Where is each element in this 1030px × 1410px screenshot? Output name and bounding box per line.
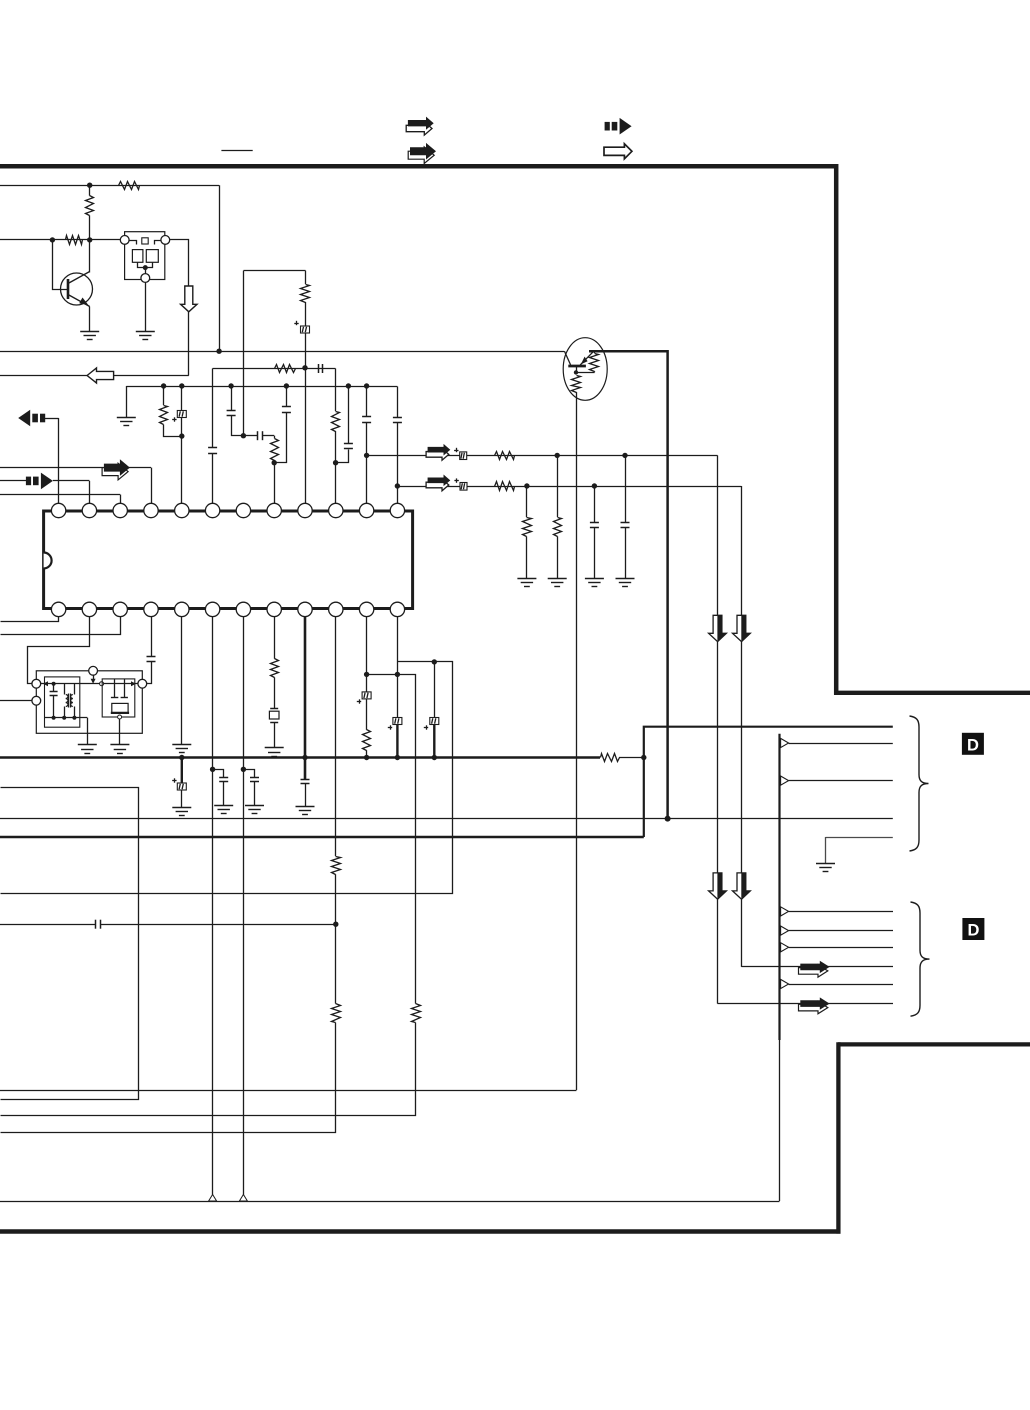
wire X2 gnd <box>119 719 121 745</box>
arrow flow down <box>181 286 197 312</box>
wire pin10 drop <box>335 463 337 504</box>
wire pin1 feed <box>44 418 59 503</box>
resistor R17 <box>601 754 620 762</box>
pin conn1-2 <box>781 738 893 747</box>
node junction <box>210 767 215 772</box>
transformer block T1 box <box>36 671 142 734</box>
wire connector bar lower <box>779 1040 781 1201</box>
wire row2 <box>397 486 741 488</box>
resistor R8 <box>332 369 340 463</box>
capacitor C19 electrolytic <box>357 674 371 703</box>
node junction <box>555 453 560 458</box>
wire connector feed <box>644 727 893 837</box>
ic U1 pin top 1 <box>51 503 65 517</box>
wire pin3 feed <box>0 495 121 504</box>
capacitor C1 electrolytic <box>294 321 309 368</box>
resistor R7 <box>271 436 279 463</box>
capacitor C16 <box>213 770 229 806</box>
wire pin7 top link <box>244 270 306 272</box>
capacitor C6 <box>243 431 274 440</box>
capacitor C8 <box>336 386 353 463</box>
node junction <box>179 433 184 438</box>
brace conn1 <box>910 716 929 851</box>
node junction <box>346 383 351 388</box>
ground X1 <box>136 332 155 340</box>
wire pin6 drop <box>212 454 214 504</box>
ic U1 pin top 2 <box>82 503 96 517</box>
capacitor C14 <box>621 455 630 578</box>
wire pin3b <box>1 617 121 635</box>
node junction <box>241 433 246 438</box>
wire pin5 drop <box>181 436 183 503</box>
crystal X3 <box>269 709 279 748</box>
wire pin9 column <box>305 368 307 503</box>
capacitor C3 <box>208 448 217 454</box>
arrow bus left <box>18 410 45 427</box>
capacitor C13 <box>590 486 599 578</box>
wire conn1 gnd drop <box>825 837 827 863</box>
node junction <box>272 460 277 465</box>
arrow bus right <box>26 473 53 490</box>
wire pin10b mid <box>335 874 337 1003</box>
ic U1 pin top 4 <box>144 503 158 517</box>
ic U1 pin bottom 2 <box>82 602 96 616</box>
resistor R5 <box>275 365 296 373</box>
capacitor C4 electrolytic <box>172 386 186 436</box>
transistor Q1 <box>53 240 93 332</box>
wire border lower-right horizontal <box>838 1042 1030 1046</box>
terminal X1 right <box>161 236 170 245</box>
resistor R2 <box>86 185 94 240</box>
wire X1 to ground <box>145 282 147 331</box>
transistor Q2 <box>563 338 607 401</box>
capacitor C20 electrolytic <box>388 718 402 758</box>
node junction <box>432 755 437 760</box>
capacitor C9 <box>362 386 371 455</box>
ic U1 pin top 8 <box>267 503 281 517</box>
node junction <box>364 453 369 458</box>
ic U1 body <box>44 511 413 609</box>
wire rail B <box>126 386 397 388</box>
terminal X1 bottom <box>141 274 150 283</box>
pin conn1-3 <box>781 776 893 785</box>
resistor R1 <box>119 182 140 190</box>
wire mid A <box>0 818 893 820</box>
wire pin10b lower <box>1 1023 336 1133</box>
resistor R18 <box>412 1004 421 1023</box>
wire Q2 emitter rail <box>589 350 668 353</box>
node junction <box>87 237 92 242</box>
label D2 <box>962 918 984 940</box>
wire border lower-right vertical <box>836 1042 840 1233</box>
resistor R16 <box>363 699 371 758</box>
brace conn2 <box>911 902 930 1016</box>
ic U1 pin bottom 5 <box>175 602 189 616</box>
wire pin11 drop <box>366 455 368 503</box>
capacitor C12 electrolytic <box>454 478 467 490</box>
capacitor T1 internal <box>50 684 58 718</box>
wire pin6b <box>212 617 214 1195</box>
legend dash <box>221 150 252 152</box>
wire T1 gnd1 <box>87 718 89 745</box>
wire rail A <box>213 368 336 370</box>
ic U1 pin top 12 <box>390 503 404 517</box>
wire supply rail <box>0 185 219 187</box>
ic U1 pin top 3 <box>113 503 127 517</box>
wire pin11b <box>366 617 368 675</box>
node junction <box>179 755 184 760</box>
ic U1 pin bottom 11 <box>359 602 373 616</box>
ic U1 pin bottom 10 <box>329 602 343 616</box>
capacitor C18 <box>301 758 310 807</box>
node junction <box>216 349 221 354</box>
wire link 674 lower <box>1 1023 416 1116</box>
node junction <box>364 755 369 760</box>
arrow conn2 line6 <box>799 997 830 1013</box>
resistor R12 <box>554 455 562 578</box>
wire border bottom <box>0 1229 841 1234</box>
svg-text:D: D <box>967 736 979 754</box>
capacitor C7 <box>275 386 291 463</box>
wire bottom A <box>0 1090 576 1092</box>
wire pin2 feed <box>0 481 90 504</box>
node junction <box>641 755 646 760</box>
arrow row2 out <box>426 475 450 491</box>
legend arrow hollow <box>604 144 632 159</box>
wire base rail <box>0 239 125 241</box>
wire conn2 line6 <box>718 1003 894 1005</box>
capacitor C23 <box>0 920 336 929</box>
wire pin7 riser <box>243 271 245 436</box>
resistor R3 <box>66 236 83 245</box>
node junction <box>395 672 400 677</box>
wire pin9b <box>304 617 307 758</box>
ground pin5 <box>172 745 191 753</box>
node junction <box>179 383 184 388</box>
node junction <box>395 755 400 760</box>
node junction <box>302 755 307 760</box>
ic U1 pin top 11 <box>359 503 373 517</box>
ground C14 <box>616 579 635 587</box>
connector bar <box>778 734 780 1040</box>
ic U1 pin bottom 1 <box>51 602 65 616</box>
wire pin1b <box>1 617 59 622</box>
inductor T1 coils <box>65 684 75 718</box>
arrow flow left <box>87 368 114 383</box>
node junction <box>432 659 437 664</box>
ground conn1 <box>816 864 835 872</box>
arrow solid out <box>102 459 130 480</box>
resistor R10 <box>495 482 515 491</box>
wire row1 drop <box>717 455 719 1003</box>
wire Q2 collector drop <box>576 393 578 1090</box>
capacitor C17 <box>244 770 260 806</box>
capacitor C21 electrolytic <box>424 662 439 758</box>
wire conn2 line4 <box>741 966 893 968</box>
legend arrow bus <box>605 118 632 135</box>
ic U1 pin bottom 8 <box>267 602 281 616</box>
wire pin12 drop <box>397 486 399 503</box>
ground C17 <box>245 806 264 814</box>
wire pin8 drop <box>274 463 276 504</box>
ground X3 <box>265 748 284 757</box>
node junction <box>50 237 55 242</box>
node junction <box>364 672 369 677</box>
resistor R6 <box>160 386 182 437</box>
node junction <box>228 383 233 388</box>
wire link 674 <box>367 675 416 1004</box>
resistor R15 <box>332 1004 341 1023</box>
wire AFC out <box>0 375 189 377</box>
terminal T1 top <box>89 666 98 675</box>
arrow flow down2 <box>733 615 751 641</box>
node junction <box>284 383 289 388</box>
arrow flow down1 <box>709 615 727 641</box>
wire bus tail <box>619 757 644 759</box>
ground R12 <box>548 579 567 587</box>
wire mid B thick <box>0 836 644 838</box>
discriminator X2 box <box>102 679 135 719</box>
wire row1 <box>367 455 718 457</box>
pin conn2-5 <box>781 979 893 988</box>
terminal T1 left lower <box>32 696 41 705</box>
wire pin10b upper <box>335 617 337 856</box>
terminal pin7 bottom <box>239 1195 247 1202</box>
wire T1 internal rail <box>41 675 138 686</box>
node junction <box>161 383 166 388</box>
crystal X1 <box>125 232 165 280</box>
wire shield box <box>1 788 139 1100</box>
node junction <box>87 183 92 188</box>
wire ground bus <box>0 756 600 758</box>
ic U1 pin top 5 <box>175 503 189 517</box>
ic U1 pin bottom 6 <box>205 602 219 616</box>
ground C18 <box>296 807 315 815</box>
ic U1 pin bottom 12 <box>390 602 404 616</box>
wire pin4b lower <box>147 662 152 684</box>
wire rail Vcc <box>0 351 564 353</box>
wire pin5b <box>181 617 183 745</box>
wire conn1 gnd line <box>826 837 893 839</box>
ground X2 <box>110 745 129 754</box>
wire rail-B ground leg <box>126 386 128 417</box>
wire pin4b <box>151 617 153 657</box>
legend arrow solid <box>408 143 436 164</box>
resistor R4 <box>301 271 310 326</box>
ground C16 <box>214 806 233 814</box>
wire pin12b <box>397 617 399 718</box>
ground Q1 emitter <box>80 332 99 340</box>
ic U1 pin top 7 <box>236 503 250 517</box>
arrow conn2 line4 <box>799 961 830 977</box>
arrow row1 out <box>426 444 450 460</box>
resistor R11 <box>523 486 532 578</box>
arrow flow down3 <box>709 873 727 899</box>
resistor R13 <box>271 617 279 709</box>
ic U1 pin bottom 4 <box>144 602 158 616</box>
ground C22 <box>172 808 191 816</box>
capacitor C10 <box>393 387 402 487</box>
node junction <box>302 365 307 370</box>
ic U1 pin bottom 3 <box>113 602 127 616</box>
wire X1 right lead <box>170 240 189 376</box>
ground T1 a <box>78 745 97 754</box>
arrow flow down4 <box>733 873 751 899</box>
resistor R9 <box>495 452 515 460</box>
node junction <box>622 453 627 458</box>
legend arrow signal-route <box>406 117 434 136</box>
label D1 <box>962 733 984 755</box>
wire border right upper <box>834 164 839 695</box>
node junction <box>665 816 671 822</box>
wire pin6 column <box>212 369 214 448</box>
capacitor C2 <box>319 364 323 373</box>
wire pin2b <box>28 617 90 684</box>
resistor R14 <box>332 857 341 875</box>
pin conn2-1 <box>781 907 893 916</box>
wire bottom B <box>0 1201 780 1203</box>
ground R11 <box>517 579 536 587</box>
pin conn2-2 <box>781 926 893 935</box>
terminal T1 right <box>138 679 147 688</box>
transformer T1 inner box <box>45 677 88 727</box>
node junction <box>524 483 529 488</box>
ic U1 pin top 6 <box>205 503 219 517</box>
node junction <box>364 383 369 388</box>
pin conn2-3 <box>781 943 893 952</box>
terminal pin6 bottom <box>209 1195 217 1202</box>
ic U1 pin top 10 <box>329 503 343 517</box>
capacitor C15 <box>147 657 156 662</box>
node junction <box>592 483 597 488</box>
wire pin7b <box>243 617 245 1195</box>
wire border top <box>0 164 838 169</box>
wire border step right <box>834 691 1030 695</box>
wire osc lower-left lead <box>0 700 32 702</box>
ic U1 pin bottom 7 <box>236 602 250 616</box>
wire Q2 emitter drop <box>666 350 669 819</box>
node junction <box>241 767 246 772</box>
wire link 662 <box>1 662 453 894</box>
wire vertical feed <box>219 185 221 351</box>
svg-text:D: D <box>967 922 979 940</box>
ground rail B <box>117 418 136 426</box>
ground C13 <box>585 579 604 587</box>
capacitor C5 <box>227 386 244 436</box>
terminal X1 left <box>120 236 129 245</box>
wire pin4 feed <box>0 468 152 504</box>
node junction <box>333 460 338 465</box>
wire row2 drop <box>741 486 743 967</box>
ic U1 pin top 9 <box>298 503 312 517</box>
ic U1 pin bottom 9 <box>298 602 312 616</box>
capacitor C11 electrolytic <box>454 448 467 460</box>
terminal T1 left upper <box>32 679 41 688</box>
node junction <box>333 922 338 927</box>
node junction <box>395 483 400 488</box>
capacitor C22 electrolytic <box>172 758 186 808</box>
